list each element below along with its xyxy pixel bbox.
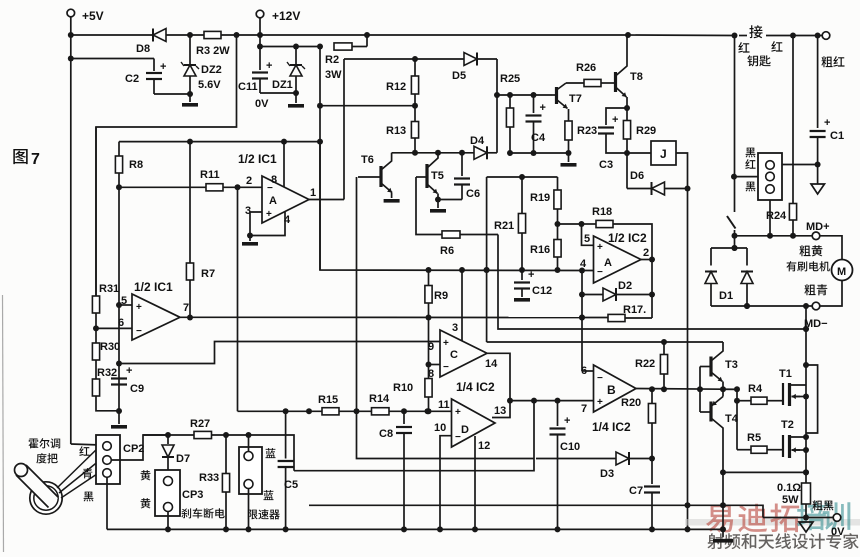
label hei1: [746, 148, 756, 158]
svg-text:C3: C3: [599, 159, 613, 171]
wire connector out: [782, 162, 821, 168]
svg-text:1/4 IC2: 1/4 IC2: [456, 380, 495, 394]
svg-text:+: +: [126, 365, 132, 377]
wire pin5: [116, 302, 132, 308]
wire 12V sub rail: [260, 44, 323, 50]
wire pin10: [437, 436, 452, 533]
wire R26 to T8: [601, 82, 616, 84]
svg-text:4: 4: [580, 258, 587, 270]
wire pin2 column: [237, 187, 239, 411]
label hong cp2: [79, 446, 89, 456]
wire B out: [636, 386, 740, 392]
svg-text:1/2 IC1: 1/2 IC1: [238, 152, 277, 166]
svg-text:+: +: [266, 60, 272, 72]
ground main: [713, 529, 733, 542]
wire pin8: [426, 362, 441, 368]
svg-text:C5: C5: [284, 479, 298, 491]
capacitor C12: [514, 269, 552, 297]
svg-text:+: +: [136, 302, 142, 313]
pin3c label: [452, 322, 458, 334]
svg-text:12: 12: [478, 440, 490, 452]
resistor R23: [565, 109, 597, 153]
resistor R17: [582, 304, 652, 322]
svg-text:C8: C8: [379, 428, 393, 440]
svg-text:0.1Ω: 0.1Ω: [777, 482, 801, 494]
pin4a label: [580, 258, 587, 270]
pin8 label: [428, 368, 434, 380]
pin14 label: [485, 358, 498, 370]
svg-text:R12: R12: [386, 81, 406, 93]
ground T6: [384, 199, 400, 203]
mosfet T2: [781, 419, 806, 458]
svg-text:D3: D3: [600, 468, 614, 480]
svg-text:R4: R4: [748, 383, 763, 395]
wire T7 collector: [566, 82, 584, 84]
terminal 0V: [831, 514, 845, 538]
wire shunt bottom: [803, 504, 809, 521]
wire R8 node to R11: [116, 184, 206, 190]
connector CP2: [96, 435, 144, 484]
wire R18 out: [613, 224, 652, 260]
svg-text:MD+: MD+: [806, 221, 830, 233]
wire R22 top line: [487, 339, 723, 345]
svg-text:M: M: [837, 266, 846, 278]
wire T7 base rail: [497, 92, 552, 98]
resistor R6: [440, 231, 460, 257]
svg-text:R15: R15: [318, 394, 338, 406]
wire to +B terminal: [793, 33, 822, 39]
wire pin1 out: [309, 199, 344, 201]
svg-text:MD−: MD−: [804, 318, 828, 330]
svg-text:5.6V: 5.6V: [198, 79, 221, 91]
resistor R9: [425, 270, 448, 318]
svg-text:A: A: [269, 195, 277, 207]
capacitor C11: [238, 47, 296, 111]
svg-text:A: A: [604, 257, 612, 269]
svg-text:T6: T6: [361, 154, 374, 166]
label hei2: [746, 182, 756, 192]
wire R12 feed: [320, 103, 418, 109]
wire pin3c: [461, 270, 463, 341]
wire MD- line: [711, 303, 812, 309]
connector CP3: [155, 470, 203, 516]
svg-text:R5: R5: [747, 432, 761, 444]
pin6 label: [118, 317, 124, 329]
svg-text:C10: C10: [560, 441, 580, 453]
pin8 label: [271, 174, 277, 186]
pin1 label: [310, 187, 316, 199]
resistor R20: [621, 389, 656, 461]
svg-text:R33: R33: [199, 472, 219, 484]
capacitor C6: [438, 153, 480, 200]
svg-text:R19: R19: [530, 192, 550, 204]
wire J out: [676, 153, 691, 192]
pin12 label: [478, 440, 490, 452]
svg-text:7: 7: [581, 403, 587, 415]
svg-text:R14: R14: [369, 393, 390, 405]
wire key to connector: [731, 174, 758, 180]
wire limiter bottom: [248, 489, 250, 530]
svg-text:R7: R7: [201, 268, 215, 280]
capacitor C10: [550, 401, 581, 533]
wire MD+ line: [735, 233, 813, 239]
wire ic1 top rail: [119, 139, 320, 145]
svg-text:R13: R13: [386, 125, 406, 137]
label limiter: [248, 509, 280, 519]
wire R27 out: [212, 432, 252, 438]
resistor R14: [369, 393, 390, 415]
resistor R30: [92, 328, 120, 379]
wire R5 to T2 gate: [767, 449, 783, 451]
wire 0V line: [763, 517, 833, 519]
capacitor C1: [810, 36, 844, 165]
label hong3: [745, 159, 755, 169]
svg-text:8: 8: [271, 174, 277, 186]
wire gnd line 505: [309, 505, 763, 517]
label DZ2: [198, 64, 222, 91]
wire pin5 column: [116, 187, 122, 414]
op-amp IC2-D: [452, 399, 496, 447]
diode D3: [536, 452, 652, 480]
pin6b label: [581, 365, 587, 377]
ground pin3: [242, 236, 258, 246]
svg-text:R8: R8: [129, 159, 143, 171]
svg-text:T3: T3: [725, 359, 738, 371]
label lan1: [265, 448, 275, 458]
svg-text:DZ2: DZ2: [201, 64, 222, 76]
resistor R31: [92, 127, 119, 328]
resistor R27: [190, 418, 212, 439]
op-amp IC1-A: [262, 176, 309, 223]
svg-text:+: +: [455, 407, 461, 418]
pin4 label: [284, 214, 291, 226]
pin9 label: [428, 341, 434, 353]
wire R4 feed: [734, 389, 740, 449]
pin7 label: [183, 302, 189, 314]
wire connector bottom pin: [769, 200, 771, 236]
wire T4 collector gnd: [720, 472, 726, 532]
wire pin5a: [582, 224, 594, 245]
capacitor C8: [379, 411, 412, 532]
wire R14 to pin11: [389, 408, 452, 414]
resistor R22: [635, 342, 668, 389]
svg-text:10: 10: [434, 422, 446, 434]
svg-text:R11: R11: [200, 169, 220, 181]
svg-text:D6: D6: [630, 170, 644, 182]
svg-text:C2: C2: [125, 73, 139, 85]
label 1/2 IC1 A: [238, 152, 277, 166]
zener DZ2: [181, 35, 199, 97]
resistor R11: [200, 169, 223, 191]
svg-text:CP2: CP2: [123, 443, 144, 455]
diode D2: [582, 280, 655, 301]
svg-text:7: 7: [31, 151, 40, 168]
resistor R26: [576, 62, 601, 87]
wire emitters to R4: [723, 388, 737, 390]
resistor R21: [494, 177, 526, 270]
svg-text:+: +: [824, 117, 830, 129]
svg-text:R27: R27: [190, 418, 210, 430]
transistor T7: [552, 83, 582, 109]
resistor R12: [386, 59, 419, 106]
wire R2 out: [352, 35, 367, 47]
terminal MD-: [804, 302, 828, 330]
watermark band: [685, 519, 860, 526]
wire pin6: [93, 325, 132, 331]
label brake: [181, 508, 224, 518]
wire pin12: [472, 436, 478, 532]
svg-text:+: +: [540, 102, 546, 114]
svg-text:D5: D5: [452, 70, 466, 82]
label hong2: [771, 41, 782, 52]
svg-text:D7: D7: [176, 453, 190, 465]
diode pair D1: [705, 245, 753, 309]
svg-text:R22: R22: [635, 358, 655, 370]
diode D5: [452, 53, 477, 83]
resistor R2: [325, 43, 352, 81]
svg-text:+: +: [528, 269, 534, 281]
pin3 label: [245, 205, 251, 217]
wire cp2 pin2 out: [112, 432, 172, 460]
svg-text:R17.: R17.: [623, 304, 646, 316]
diode D4: [470, 135, 497, 159]
label 1/2 IC2: [608, 231, 647, 245]
capacitor C4: [526, 95, 546, 153]
svg-text:R32: R32: [97, 367, 117, 379]
wire pin11 line: [238, 408, 323, 414]
label cuhuang: [799, 245, 822, 256]
diode D8: [136, 29, 166, 56]
mosfet T1: [779, 368, 806, 406]
wire pin3 gnd: [247, 212, 285, 239]
op-amp IC1-B: [132, 294, 180, 340]
transistor T3: [700, 342, 738, 389]
wire y59 rail: [344, 56, 497, 62]
wire D2 right leg: [651, 260, 653, 319]
wire cp2 pin3 down: [106, 478, 108, 530]
svg-text:2: 2: [246, 175, 252, 187]
svg-text:5: 5: [584, 233, 590, 245]
wire to CP2 pin1: [71, 444, 101, 445]
wire D8 to R3: [166, 32, 204, 38]
wire D5 down: [494, 59, 500, 153]
wire R27 corner: [249, 435, 295, 471]
svg-text:C12: C12: [532, 285, 552, 297]
resistor R25: [500, 73, 520, 153]
resistor R5: [737, 432, 767, 453]
svg-text:3: 3: [452, 322, 458, 334]
capacitor C7: [629, 459, 660, 533]
wire pin6b: [582, 370, 594, 372]
wire R3 to +12V node: [221, 32, 263, 38]
terminal B+: [822, 32, 830, 40]
wire emitter rail: [507, 150, 572, 156]
wire R6 to riser: [460, 234, 498, 236]
resistor R3: [196, 31, 230, 57]
switch key: [727, 216, 738, 251]
resistor R33: [199, 435, 230, 529]
throttle cables: [57, 446, 100, 498]
wire T1-T2 bypass: [806, 365, 818, 433]
terminal MD+: [806, 221, 830, 240]
resistor R13: [386, 106, 419, 153]
resistor R24: [766, 36, 797, 239]
connector speed limiter: [239, 447, 262, 494]
relay J: [627, 141, 676, 165]
wire T5 base drop: [416, 177, 442, 235]
svg-text:+: +: [612, 114, 618, 126]
svg-text:+12V: +12V: [272, 9, 300, 23]
svg-text:+: +: [443, 338, 449, 349]
wire +5V top rail: [71, 34, 152, 36]
resistor R10: [393, 318, 432, 415]
svg-text:T1: T1: [779, 368, 792, 380]
resistor R19: [530, 177, 561, 227]
wire T4 to shunt line: [720, 469, 809, 475]
svg-text:D8: D8: [136, 43, 150, 55]
svg-text:DZ1: DZ1: [272, 79, 293, 91]
wire gap at jie label: [739, 33, 796, 39]
wire key line: [734, 36, 736, 213]
svg-text:C4: C4: [531, 132, 546, 144]
svg-text:T8: T8: [630, 71, 643, 83]
label huang1: [141, 470, 151, 480]
label yaoshi: [747, 55, 770, 66]
svg-text:0V: 0V: [255, 98, 269, 110]
watermark slogan: [707, 533, 858, 549]
label qing cp2: [83, 468, 93, 478]
op-amp IC2-B: [594, 365, 637, 412]
op-amp IC2-C: [440, 330, 487, 377]
svg-text:+: +: [597, 242, 603, 253]
wire R11 to pin2: [223, 184, 262, 190]
svg-text:−: −: [597, 373, 603, 384]
ground DZ2: [182, 94, 198, 107]
op-amp IC2-A: [594, 236, 642, 283]
label cuqing: [804, 284, 827, 295]
wire pin7 out: [180, 315, 585, 321]
svg-text:R3 2W: R3 2W: [196, 45, 230, 57]
capacitor C9: [111, 365, 144, 395]
svg-text:+: +: [160, 61, 166, 73]
svg-text:R25: R25: [500, 73, 520, 85]
wire +12V stem: [257, 18, 263, 50]
wire pin4a leg: [579, 271, 585, 372]
wire fb drop: [320, 142, 594, 274]
wire R27 line: [143, 434, 194, 436]
svg-text:5W: 5W: [782, 494, 799, 506]
label 1/2 IC1 B: [134, 280, 173, 294]
resistor R15: [318, 394, 339, 415]
pin2a label: [643, 247, 649, 259]
svg-text:CP3: CP3: [182, 489, 203, 501]
zener DZ1: [272, 47, 305, 97]
wire relay return: [685, 189, 691, 533]
resistor R shunt 0.1: [777, 482, 811, 506]
connector CP1: [758, 153, 782, 200]
transistor T4: [700, 389, 739, 472]
svg-text:+: +: [266, 209, 272, 220]
svg-text:T7: T7: [569, 93, 582, 105]
svg-text:3W: 3W: [325, 69, 342, 81]
wire R3 bias branch: [96, 35, 237, 296]
pin13 label: [494, 405, 506, 417]
transistor T8: [616, 35, 643, 111]
svg-text:1/2 IC1: 1/2 IC1: [134, 280, 173, 294]
wire fb loop: [294, 401, 534, 471]
wire top rail to T8: [260, 32, 631, 38]
svg-text:D2: D2: [618, 280, 632, 292]
svg-text:J: J: [660, 147, 667, 161]
wire motor top: [820, 236, 842, 260]
svg-text:11: 11: [438, 399, 450, 411]
capacitor C5: [278, 411, 298, 529]
svg-text:C: C: [450, 349, 458, 361]
watermark teal: [797, 501, 850, 530]
svg-text:1/4 IC2: 1/4 IC2: [592, 420, 631, 434]
wire pin7b line: [510, 398, 594, 404]
svg-text:0V: 0V: [831, 526, 845, 538]
label hall throttle: [29, 438, 61, 463]
resistor R8: [115, 142, 143, 188]
pin5a label: [584, 233, 590, 245]
svg-text:−: −: [443, 362, 449, 373]
terminal +5V: [67, 9, 104, 23]
svg-text:1: 1: [310, 187, 316, 199]
ground C9: [111, 411, 127, 429]
label hong1: [738, 42, 749, 53]
svg-text:R16: R16: [530, 244, 550, 256]
svg-text:C9: C9: [130, 383, 144, 395]
resistor R32: [92, 367, 119, 411]
transistor T6: [358, 153, 392, 198]
label cuhong: [821, 56, 844, 67]
svg-text:B: B: [607, 383, 616, 397]
label figure 7: [13, 149, 40, 168]
label hei cp2: [84, 492, 94, 502]
wire cp3 down: [167, 512, 169, 530]
wire motor bottom: [820, 281, 842, 307]
pin2 label: [246, 175, 252, 187]
svg-text:+: +: [564, 415, 570, 427]
resistor R18: [582, 206, 614, 228]
label lan2: [263, 490, 273, 500]
svg-text:R31: R31: [99, 283, 119, 295]
wire R4 to T1 gate: [767, 400, 783, 402]
wire R2-left vertical: [317, 47, 323, 271]
svg-text:R30: R30: [100, 341, 120, 353]
transistor T5: [416, 153, 444, 203]
svg-text:R29: R29: [636, 125, 656, 137]
wire T3T4 base: [699, 367, 701, 413]
svg-text:+: +: [597, 397, 603, 408]
ground C1: [811, 165, 825, 195]
svg-text:2: 2: [643, 247, 649, 259]
ground T5: [430, 200, 446, 213]
wire D out: [492, 401, 510, 418]
svg-text:R23: R23: [577, 125, 597, 137]
wire R15-R14: [339, 410, 372, 412]
terminal +12V: [256, 9, 300, 23]
svg-text:−: −: [597, 267, 603, 278]
wire pin8: [283, 142, 285, 187]
wire R16 to R18: [558, 221, 585, 227]
svg-text:R21: R21: [494, 220, 514, 232]
capacitor C2: [71, 59, 190, 95]
svg-text:C11: C11: [238, 81, 258, 93]
label youshua: [786, 261, 829, 271]
label 1/4 IC2 C: [456, 380, 495, 394]
